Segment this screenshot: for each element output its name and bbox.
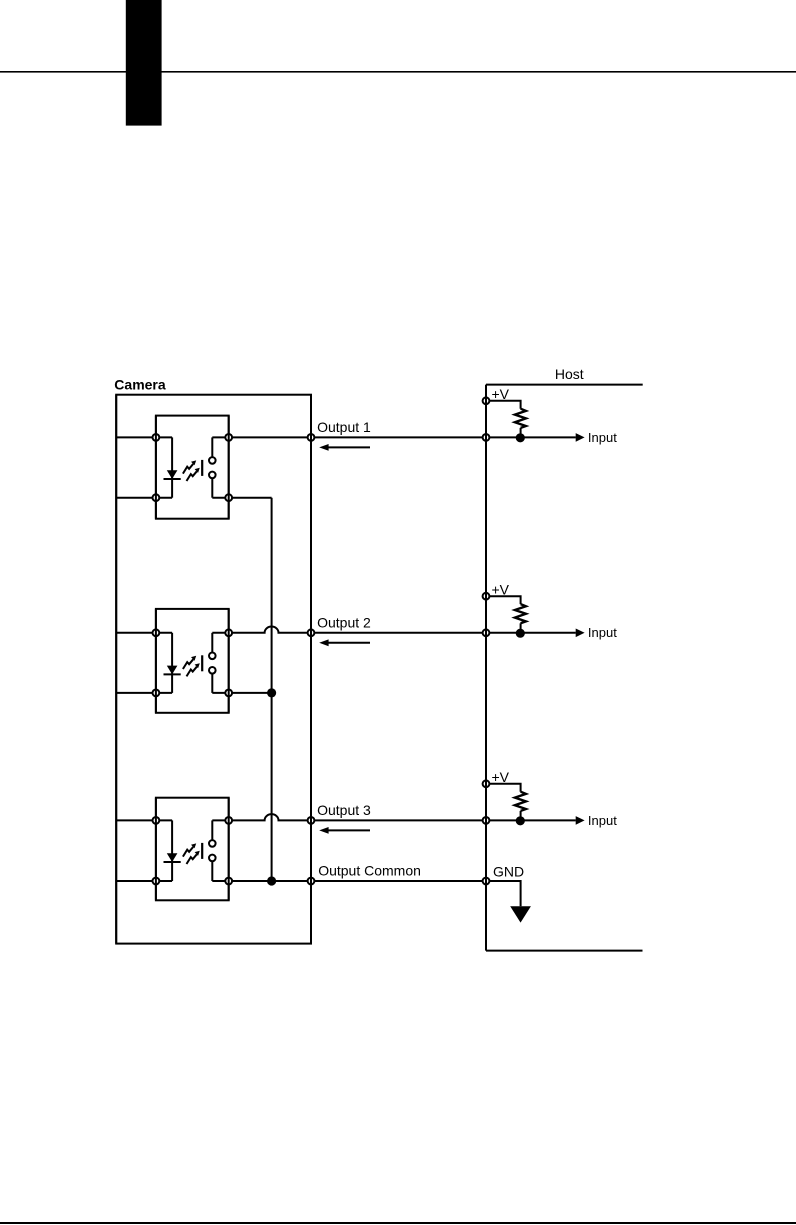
wire: resistor R2 bottom to input node [520,623,522,633]
wire: U2 emitter to common bus [229,692,272,694]
svg-text:Output 3: Output 3 [317,802,371,818]
LED D3 cathode bar [164,861,181,863]
optocoupler U2 box left edge [155,609,157,713]
terminal: U2 pin 2 (cathode) [153,690,160,697]
svg-text:Input: Input [588,430,617,445]
wire: U2 collector terminal to top contact [212,632,228,634]
optocoupler U3 package box [156,798,229,901]
output common bus vertical wire [271,498,273,881]
resistor R1 (pull-up) [515,409,526,428]
terminal: U1 pin 2 (cathode) [153,494,160,501]
terminal: U3 pin 3 (emitter) [225,878,232,885]
wire: U1 anode terminal to LED branch [156,436,172,438]
phototransistor detector bar of U3 [201,843,203,859]
terminal: camera Output 3 connector pin [308,817,315,824]
svg-text:+V: +V [492,582,510,598]
wire: resistor R3 bottom to input node [520,811,522,821]
svg-text:Output 2: Output 2 [317,614,371,630]
signal direction arrow under Output 3 [319,827,370,834]
terminal: U3 pin 4 (collector) [225,817,232,824]
wire: GND terminal to ground symbol [486,881,521,906]
junction: resistor R1 to Input 1 node [516,433,525,442]
terminal: host +V pin 2 [483,593,490,600]
wire: U3 collector terminal to top contact [212,819,228,821]
svg-text:Output 1: Output 1 [317,419,371,435]
LED light emission arrow 2 of U1 [187,468,200,481]
optocoupler U2 package box [156,609,229,713]
U2 bottom switch contact [209,667,216,674]
terminal: U1 pin 1 (anode) [153,434,160,441]
wire: camera left rail to U1 cathode (pin 2) [116,497,156,499]
wire: U2 anode terminal to LED branch [156,632,172,634]
wire: stub to U1 bottom switch contact [211,475,213,498]
wire: U1 collector terminal to top contact [212,436,228,438]
wire: +V terminal to resistor R1 top [486,401,521,409]
terminal: U3 pin 2 (cathode) [153,878,160,885]
header bar [126,0,162,126]
input arrowhead 2 [576,629,585,638]
wire: U1 cathode terminal to LED branch [156,497,172,499]
optocoupler U3 box right edge [228,798,230,901]
footer rule [0,1222,796,1224]
terminal: U2 pin 1 (anode) [153,629,160,636]
wire: stub to U2 bottom switch contact [211,670,213,693]
wire: camera left rail to U2 cathode (pin 2) [116,692,156,694]
terminal: host +V pin 1 [483,397,490,404]
wire: camera left rail to U2 anode (pin 1) [116,632,156,634]
U2 top switch contact [209,653,216,660]
terminal: host Input 1 pin [483,434,490,441]
wire: resistor R1 bottom to input node [520,428,522,438]
terminal: camera Output 2 connector pin [308,629,315,636]
wire: stub to U3 top switch contact [211,820,213,843]
U1 top switch contact [209,457,216,464]
terminal: camera Output 1 connector pin [308,434,315,441]
camera box left edge wire [115,395,117,944]
junction: U2 emitter to common bus [267,688,276,697]
terminal: U2 pin 4 (collector) [225,629,232,636]
Host block bottom edge [486,950,643,952]
LED light emission arrow 1 of U3 [183,843,196,856]
wire: U1 emitter terminal to bottom contact [212,497,228,499]
U1 bottom switch contact [209,472,216,479]
wire: +V terminal to resistor R2 top [486,596,521,604]
terminal: host Input 2 pin [483,629,490,636]
wire: Output 3 line from U3 collector to host input node [229,814,576,820]
terminal: host +V pin 3 [483,780,490,787]
LED light emission arrow 1 of U1 [183,460,196,473]
phototransistor detector bar of U2 [201,655,203,671]
optocoupler U3 box left edge [155,798,157,901]
wire: Output 1 line from U1 collector to host input node [229,436,576,438]
wire: camera left rail to U3 anode (pin 1) [116,819,156,821]
U3 top switch contact [209,840,216,847]
svg-text:GND: GND [493,863,524,879]
svg-text:Input: Input [588,813,617,828]
LED D2 cathode bar [164,673,181,675]
terminal: U3 pin 1 (anode) [153,817,160,824]
wire: LED D3 vertical branch [171,820,173,881]
LED D3 anode triangle [167,853,178,862]
terminal: camera Output Common connector pin [308,878,315,885]
terminal: U2 pin 3 (emitter) [225,690,232,697]
Host block top edge [486,384,643,386]
optocoupler U1 package box [156,416,229,519]
wire: U1 emitter to common bus [229,497,272,499]
wire: Output Common line [229,880,486,882]
LED light emission arrow 2 of U3 [187,851,200,864]
junction: resistor R2 to Input 2 node [516,629,525,638]
terminal: U1 pin 3 (emitter) [225,494,232,501]
wire: U3 cathode terminal to LED branch [156,880,172,882]
svg-text:Input: Input [588,625,617,640]
wire: stub to U1 top switch contact [211,437,213,460]
svg-text:Host: Host [555,366,584,382]
camera box right edge wire [310,395,312,944]
host left edge rail [485,385,487,951]
Camera block outline box [116,395,311,944]
LED light emission arrow 2 of U2 [187,663,200,676]
header rule [0,71,796,73]
terminal: host GND pin [483,878,490,885]
junction: common bus to Output Common line [267,876,276,885]
signal direction arrow under Output 2 [319,639,370,646]
svg-text:Camera: Camera [114,376,166,392]
junction: resistor R3 to Input 3 node [516,816,525,825]
optocoupler U1 box right edge [228,416,230,519]
terminal: host Input 3 pin [483,817,490,824]
svg-text:Output Common: Output Common [318,862,421,878]
resistor R3 (pull-up) [515,792,526,811]
LED D1 anode triangle [167,470,178,479]
wire: stub to U3 bottom switch contact [211,858,213,881]
ground symbol [510,906,531,922]
wire: U2 cathode terminal to LED branch [156,692,172,694]
terminal: U1 pin 4 (collector) [225,434,232,441]
LED light emission arrow 1 of U2 [183,656,196,669]
wire: U2 emitter terminal to bottom contact [212,692,228,694]
phototransistor detector bar of U1 [201,460,203,476]
resistor R2 (pull-up) [515,604,526,623]
input arrowhead 3 [576,816,585,825]
U3 bottom switch contact [209,855,216,862]
wire: camera left rail to U3 cathode (pin 2) [116,880,156,882]
wire: U3 anode terminal to LED branch [156,819,172,821]
input arrowhead 1 [576,433,585,442]
wire: LED D2 vertical branch [171,633,173,693]
wire: camera left rail to U1 anode (pin 1) [116,436,156,438]
signal direction arrow under Output 1 [319,444,370,451]
wire: stub to U2 top switch contact [211,633,213,656]
wire: +V terminal to resistor R3 top [486,784,521,792]
wire: Output 2 line from U2 collector to host input node [229,627,576,633]
optocoupler U1 box left edge [155,416,157,519]
LED D2 anode triangle [167,666,178,675]
wire: LED D1 vertical branch [171,437,173,497]
wire: U3 emitter terminal to bottom contact [212,880,228,882]
optocoupler U2 box right edge [228,609,230,713]
LED D1 cathode bar [164,478,181,480]
